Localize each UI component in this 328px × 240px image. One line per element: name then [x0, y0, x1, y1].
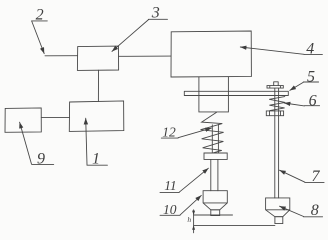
block 1 [69, 101, 124, 131]
leader 3 [112, 20, 149, 52]
leader 11 [179, 168, 208, 192]
svg-text:5: 5 [307, 68, 315, 85]
svg-text:11: 11 [164, 178, 177, 193]
leader 9 [20, 122, 32, 164]
dimension arrow down [192, 211, 195, 215]
wire [41, 117, 69, 119]
nozzle 8 tip [275, 217, 283, 224]
leader 6 [284, 103, 304, 106]
svg-text:10: 10 [163, 202, 177, 217]
leader 8 [280, 206, 304, 216]
block 9 [5, 108, 41, 132]
dimension arrow up [192, 225, 195, 229]
plate [184, 91, 288, 95]
block 4 [171, 31, 251, 77]
block 3 [77, 46, 118, 70]
leader 10 [180, 195, 201, 215]
nozzle 8 [266, 198, 290, 217]
piston rod 11 [212, 124, 218, 153]
leader 5 [290, 82, 304, 90]
nut upper [267, 86, 283, 89]
tip plane line [194, 214, 233, 216]
svg-text:6: 6 [309, 92, 317, 109]
spring 12 [201, 112, 224, 153]
nozzle 10 tip [211, 210, 220, 216]
leader 4 [240, 47, 304, 54]
nozzle 10 [203, 191, 227, 210]
dimension line h [193, 210, 195, 233]
screw thread 6 [269, 97, 285, 111]
wire [97, 70, 99, 101]
adjusting screw stem [274, 82, 279, 86]
leader 12 [178, 128, 211, 138]
surface line [194, 224, 275, 226]
rod lower [211, 159, 218, 190]
svg-text:12: 12 [162, 125, 176, 140]
collar [204, 153, 227, 159]
leader 2 [32, 21, 44, 53]
wire [45, 55, 78, 57]
wire [119, 55, 172, 57]
leader 7 [280, 170, 305, 182]
leader 1 [86, 118, 87, 165]
svg-text:h: h [187, 215, 191, 224]
valve body under block 4 [199, 77, 229, 112]
rod 7 [275, 89, 279, 198]
nut lower [266, 111, 283, 116]
